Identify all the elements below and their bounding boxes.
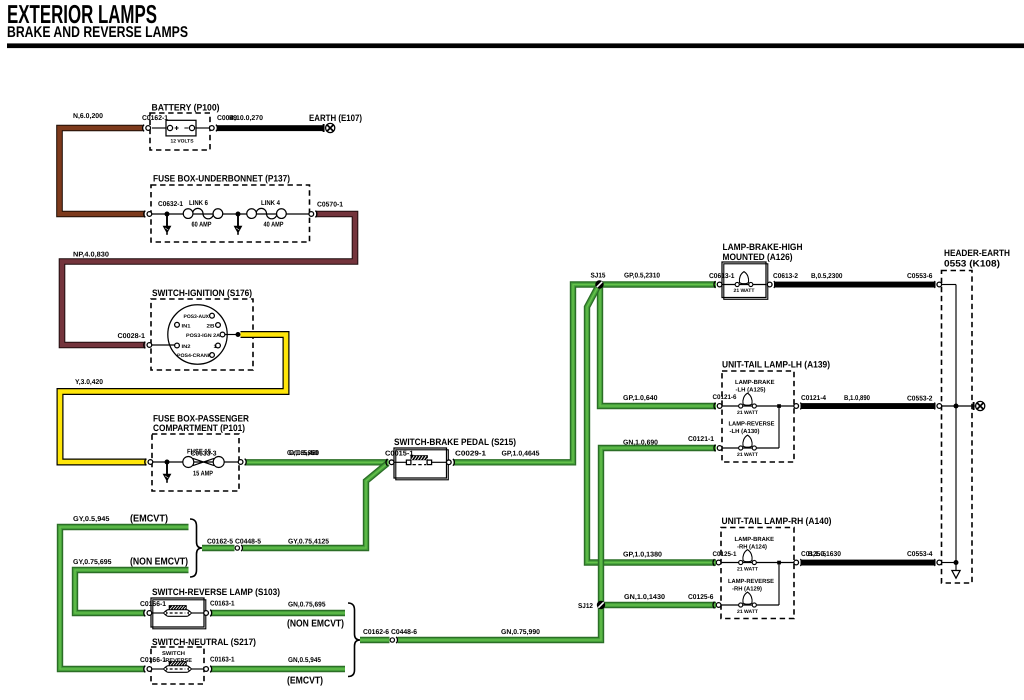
fusible link LINK 6 xyxy=(183,200,223,229)
connector C0049 battery xyxy=(209,125,217,132)
svg-text:SWITCH: SWITCH xyxy=(162,651,185,657)
label GN,0.75,990 xyxy=(501,629,540,636)
earth stud symbol right of K108 xyxy=(974,401,985,410)
connector C0121-1 A139 xyxy=(714,445,722,452)
label C0162-5 C0448-5 xyxy=(207,539,261,546)
label N,6.0,200 xyxy=(73,113,103,120)
svg-text:60 AMP: 60 AMP xyxy=(192,222,212,229)
svg-text:C0163-1: C0163-1 xyxy=(210,657,235,664)
switch-neutral S217 xyxy=(140,637,256,684)
svg-text:N,6.0,200: N,6.0,200 xyxy=(73,113,103,120)
svg-text:21 WATT: 21 WATT xyxy=(737,567,758,573)
wire GY,0.75,4125 branch to C0448-5 xyxy=(202,463,388,548)
svg-text:C0633-3: C0633-3 xyxy=(191,451,217,458)
connector C0553-2 K108 xyxy=(934,403,942,410)
label SJ15 xyxy=(591,273,606,280)
connector C0632-1 P137 xyxy=(144,211,152,218)
connector label C0632-1 xyxy=(158,201,183,208)
label GP,0.5,2310 xyxy=(624,273,660,280)
svg-text:C0162-6 C0448-6: C0162-6 C0448-6 xyxy=(363,629,417,636)
connector C0121-4 A139 xyxy=(794,403,802,410)
svg-text:SJ15: SJ15 xyxy=(591,273,606,280)
svg-text:MOUNTED (A126): MOUNTED (A126) xyxy=(723,252,793,262)
label NON EMCVT top xyxy=(130,557,188,568)
label C0121-4 xyxy=(801,395,826,402)
wire GP,1.0,640 SJ15 to tail lamp LH brake xyxy=(600,287,716,406)
svg-text:B,1.0,890: B,1.0,890 xyxy=(844,395,870,402)
ground arrow K108 xyxy=(952,571,960,579)
svg-text:C0029-1: C0029-1 xyxy=(455,451,486,458)
svg-text:LAMP-BRAKE: LAMP-BRAKE xyxy=(735,379,775,386)
wire GY,0.5,945 EMCVT to switch-neutral xyxy=(60,527,189,669)
label C0553-4 xyxy=(907,551,933,558)
label C0125-6 xyxy=(688,594,714,601)
svg-text:C0121-1: C0121-1 xyxy=(688,436,714,443)
connector C0029-1 S215 xyxy=(446,459,454,466)
svg-text:(NON EMCVT): (NON EMCVT) xyxy=(287,619,344,630)
lamp-brake-high mounted A126 xyxy=(709,242,803,299)
svg-text:15 AMP: 15 AMP xyxy=(193,471,213,478)
svg-text:GY,0.75,4125: GY,0.75,4125 xyxy=(288,539,329,546)
pin POS3-AUX xyxy=(184,313,215,320)
label GP,1.0,1380 xyxy=(623,552,662,559)
label C0049 and B,10.0,270 xyxy=(217,115,263,122)
label GN,1.0,1430 xyxy=(624,594,665,601)
label EMCVT top xyxy=(130,514,168,525)
svg-text:C0162-5 C0448-5: C0162-5 C0448-5 xyxy=(207,539,261,546)
subtitle BRAKE AND REVERSE LAMPS xyxy=(7,24,188,41)
fusible link LINK 4 xyxy=(247,200,287,229)
svg-text:21 WATT: 21 WATT xyxy=(737,410,758,416)
unit-tail lamp-LH A139 xyxy=(713,360,831,463)
connector C0125-6 A140 xyxy=(713,602,721,609)
inline connector C0162-6 C0448-6 xyxy=(390,635,398,645)
connector C0570-1 P137 xyxy=(309,211,317,218)
junction node ignition yellow tap xyxy=(236,332,241,337)
connector C0553-6 K108 xyxy=(934,281,942,288)
svg-text:SWITCH-BRAKE PEDAL (S215): SWITCH-BRAKE PEDAL (S215) xyxy=(394,437,516,447)
junction node K108 low xyxy=(954,560,959,565)
battery P100 xyxy=(142,103,220,151)
label EARTH E107 xyxy=(309,113,362,123)
label GY,0.75,695 xyxy=(73,559,112,566)
svg-text:C0125-6: C0125-6 xyxy=(688,594,714,601)
connector C0613-2 A126 xyxy=(767,281,775,288)
label GP,1.0,640 xyxy=(623,395,658,402)
svg-text:HEADER-EARTH: HEADER-EARTH xyxy=(944,248,1010,258)
svg-text:-LH (A125): -LH (A125) xyxy=(736,387,766,394)
svg-text:-RH (A129): -RH (A129) xyxy=(732,586,762,593)
node ignition IGN output xyxy=(225,334,236,336)
svg-text:COMPARTMENT (P101): COMPARTMENT (P101) xyxy=(153,423,245,433)
label C0029-1 xyxy=(455,451,486,458)
fuse box passenger compartment P101 xyxy=(152,414,249,492)
lamp-reverse-LH A130 xyxy=(729,421,775,459)
svg-text:NP,4.0,830: NP,4.0,830 xyxy=(73,252,109,259)
label C0028-1 xyxy=(118,333,146,340)
wire GP,1.0,4645 and GP,0.5,2310 brake pedal to SJ15 to lamp A126 xyxy=(454,285,717,463)
svg-text:40 AMP: 40 AMP xyxy=(264,222,284,229)
connector C0553-4 K108 xyxy=(934,559,942,566)
svg-text:B,10.0,270: B,10.0,270 xyxy=(229,115,263,122)
wire GN vertical GN,1.0,690 and GN,0.75,990 xyxy=(360,448,716,640)
svg-text:BRAKE AND REVERSE LAMPS: BRAKE AND REVERSE LAMPS xyxy=(7,24,188,41)
label C0163-1 S217 xyxy=(210,657,235,664)
wire Y,3.0,420 ignition to P101 xyxy=(60,335,286,463)
junction node P137 feed 1 xyxy=(163,212,172,235)
svg-text:POS4-CRANK: POS4-CRANK xyxy=(177,353,212,359)
label GY,0.75,4125 xyxy=(288,539,329,546)
connector C0163-1 S217 xyxy=(204,666,212,673)
svg-text:IN2: IN2 xyxy=(182,344,191,350)
label C0121-1 xyxy=(688,436,714,443)
label NP,4.0,830 xyxy=(73,252,109,259)
label GN,0.75,695 xyxy=(288,602,326,609)
label B,1.0,890 xyxy=(844,395,870,402)
svg-text:IN1: IN1 xyxy=(182,323,191,329)
wire GY,0.75,695 NON EMCVT to switch-reverse lamp xyxy=(75,570,189,613)
wire GN,1.0,1430 SJ12 to tail lamp RH reverse xyxy=(601,602,716,608)
svg-text:C0166-1: C0166-1 xyxy=(140,657,166,664)
svg-text:21 WATT: 21 WATT xyxy=(737,452,758,458)
svg-text:GN,1.0,690: GN,1.0,690 xyxy=(623,440,658,447)
pin 1 xyxy=(214,343,221,350)
svg-text:GN,1.0,1430: GN,1.0,1430 xyxy=(624,594,665,601)
label C0553-6 xyxy=(907,273,933,280)
connector C0125-5 A140 xyxy=(794,559,802,566)
inline connector C0162-5 C0448-5 xyxy=(235,543,243,553)
svg-text:SWITCH-REVERSE LAMP (S103): SWITCH-REVERSE LAMP (S103) xyxy=(152,587,280,597)
lamp-brake-LH A125 xyxy=(735,379,775,416)
brace merging EMCVT and NON EMCVT feeds xyxy=(190,519,202,577)
connector P101 left xyxy=(145,459,153,466)
header-earth 0553 K108 xyxy=(942,248,1011,583)
svg-text:C0553-6: C0553-6 xyxy=(907,273,933,280)
svg-text:LAMP-BRAKE-HIGH: LAMP-BRAKE-HIGH xyxy=(723,242,803,252)
svg-text:GY,0.5,945: GY,0.5,945 xyxy=(73,516,110,523)
connector label C0570-1 xyxy=(317,202,343,209)
pin IN2 xyxy=(175,343,191,350)
svg-text:(NON EMCVT): (NON EMCVT) xyxy=(130,557,188,568)
svg-text:LAMP-REVERSE: LAMP-REVERSE xyxy=(728,578,774,585)
connector S103 left xyxy=(144,610,152,617)
label SJ12 xyxy=(578,603,593,610)
svg-text:-RH (A124): -RH (A124) xyxy=(737,544,767,551)
fuse FUSE 15 xyxy=(183,449,224,478)
switch-brake pedal S215 xyxy=(385,437,516,480)
svg-text:C0015-1: C0015-1 xyxy=(385,451,414,458)
svg-text:BATTERY (P100): BATTERY (P100) xyxy=(152,103,220,113)
svg-text:GP,1.0,4645: GP,1.0,4645 xyxy=(502,451,540,458)
lamp-reverse-RH A129 xyxy=(728,578,774,615)
svg-text:LAMP-REVERSE: LAMP-REVERSE xyxy=(729,421,775,428)
wire N,6.0,200 battery to P137 xyxy=(60,128,145,214)
label NON EMCVT bottom xyxy=(287,619,344,630)
svg-text:C0121-4: C0121-4 xyxy=(801,395,826,402)
label C0162-6 C0448-6 xyxy=(363,629,417,636)
svg-text:C0028-1: C0028-1 xyxy=(118,333,146,340)
connector S217 left xyxy=(144,666,152,673)
svg-text:21 WATT: 21 WATT xyxy=(737,609,758,615)
label GY,0.5,650 overlap xyxy=(287,450,319,457)
svg-text:C0632-1: C0632-1 xyxy=(158,201,183,208)
svg-text:C0121-6: C0121-6 xyxy=(713,394,737,401)
unit-tail lamp-RH A140 xyxy=(713,516,832,619)
svg-text:FUSE BOX-UNDERBONNET (P137): FUSE BOX-UNDERBONNET (P137) xyxy=(153,174,290,184)
label Y,3.0,420 xyxy=(75,379,103,386)
splice SJ15 xyxy=(595,280,603,288)
junction node P101 feed xyxy=(163,460,172,483)
connector C0125-1 A140 xyxy=(713,559,721,566)
label C0613-2 xyxy=(773,273,798,280)
label C0125-5 and B,1.0,1630 overlap xyxy=(801,551,841,558)
svg-text:GN,0.5,945: GN,0.5,945 xyxy=(288,657,321,664)
svg-text:POS3-AUX: POS3-AUX xyxy=(184,314,210,320)
label GN,0.5,945 xyxy=(288,657,321,664)
svg-text:SJ12: SJ12 xyxy=(578,603,593,610)
pin POS4-CRANK xyxy=(177,353,214,359)
label C0163-1 S103 xyxy=(210,601,235,608)
wire GY P101 to brake pedal switch xyxy=(246,459,389,465)
pin POS3-IGN 2A xyxy=(186,332,225,339)
svg-text:GN,0.75,990: GN,0.75,990 xyxy=(501,629,540,636)
connector C0015-1 S215 xyxy=(386,459,394,466)
switch-ignition S176 xyxy=(151,288,253,370)
wire GP,1.0,1380 SJ15 to tail lamp RH brake xyxy=(587,286,716,563)
label EMCVT bottom xyxy=(287,676,323,687)
label C0553-2 xyxy=(907,396,933,403)
wire B,10.0,270 battery to earth xyxy=(217,125,323,131)
junction node K108 mid xyxy=(954,404,959,409)
svg-text:POS3-IGN 2A: POS3-IGN 2A xyxy=(186,333,220,339)
wire B,1.0,890 tail lamp LH to K108 xyxy=(801,403,936,409)
svg-text:C0163-1: C0163-1 xyxy=(210,601,235,608)
svg-text:UNIT-TAIL LAMP-LH (A139): UNIT-TAIL LAMP-LH (A139) xyxy=(722,360,830,370)
label GY,0.5,945 xyxy=(73,516,110,523)
title rule bar xyxy=(7,43,1024,48)
svg-text:UNIT-TAIL LAMP-RH (A140): UNIT-TAIL LAMP-RH (A140) xyxy=(722,516,832,526)
fuse box underbonnet P137 xyxy=(151,174,310,243)
svg-text:GP,1.0,640: GP,1.0,640 xyxy=(623,395,658,402)
svg-text:LINK 4: LINK 4 xyxy=(261,200,280,207)
brace merging switch outputs xyxy=(348,603,360,677)
svg-text:GY,0.75,695: GY,0.75,695 xyxy=(73,559,112,566)
svg-text:C0162-1: C0162-1 xyxy=(142,115,168,122)
svg-text:B,1.0,1630: B,1.0,1630 xyxy=(808,551,841,558)
svg-text:GP,0.5,2310: GP,0.5,2310 xyxy=(624,273,660,280)
svg-text:LAMP-BRAKE: LAMP-BRAKE xyxy=(735,536,775,543)
svg-text:Y,3.0,420: Y,3.0,420 xyxy=(75,379,103,386)
pin 2B xyxy=(207,323,221,330)
svg-text:-LH (A130): -LH (A130) xyxy=(730,428,760,435)
label GN,1.0,690 xyxy=(623,440,658,447)
svg-text:B,0.5,2300: B,0.5,2300 xyxy=(811,273,843,280)
connector C0633-3 P101 right xyxy=(238,459,246,466)
earth symbol E107 xyxy=(324,123,335,132)
svg-text:21 WATT: 21 WATT xyxy=(734,288,755,294)
svg-text:12 VOLTS: 12 VOLTS xyxy=(171,139,195,145)
junction node P137 feed 2 xyxy=(234,212,243,235)
pin IN1 xyxy=(175,322,191,329)
connector C0162-1 battery xyxy=(143,125,151,132)
svg-text:0553 (K108): 0553 (K108) xyxy=(944,259,1000,269)
lamp-brake-RH A124 xyxy=(735,536,775,573)
svg-text:EARTH (E107): EARTH (E107) xyxy=(309,113,362,123)
switch-reverse lamp S103 xyxy=(140,587,280,629)
connector C0028-1 S176 xyxy=(144,342,152,349)
svg-text:(EMCVT): (EMCVT) xyxy=(130,514,168,525)
svg-text:G,0.85,480: G,0.85,480 xyxy=(289,450,319,457)
svg-text:C0570-1: C0570-1 xyxy=(317,202,343,209)
label B,0.5,2300 xyxy=(811,273,843,280)
svg-text:SWITCH-NEUTRAL (S217): SWITCH-NEUTRAL (S217) xyxy=(152,637,256,647)
svg-text:LINK 6: LINK 6 xyxy=(189,200,208,207)
svg-text:GN,0.75,695: GN,0.75,695 xyxy=(288,602,326,609)
svg-text:C0553-4: C0553-4 xyxy=(907,551,933,558)
svg-text:GP,1.0,1380: GP,1.0,1380 xyxy=(623,552,662,559)
wire NP,4.0,830 P137 to ignition xyxy=(62,214,355,345)
svg-text:(EMCVT): (EMCVT) xyxy=(287,676,323,687)
svg-text:C0125-1: C0125-1 xyxy=(713,551,737,558)
connector C0121-6 A139 xyxy=(714,403,722,410)
wire B,1.0,1630 tail lamp RH to K108 xyxy=(801,560,936,566)
wire B,0.5,2300 lamp A126 to K108 xyxy=(774,282,936,288)
title EXTERIOR LAMPS xyxy=(7,0,157,29)
wire GN,0.75,695 switch-reverse lamp output xyxy=(211,610,345,616)
svg-text:SWITCH-IGNITION (S176): SWITCH-IGNITION (S176) xyxy=(152,288,252,298)
wire GN,0.5,945 switch-neutral output xyxy=(211,666,345,672)
splice SJ12 xyxy=(597,601,605,609)
connector C0163-1 S103 xyxy=(204,610,212,617)
connector C0613-1 A126 xyxy=(714,281,722,288)
svg-text:C0613-2: C0613-2 xyxy=(773,273,798,280)
label GP,1.0,4645 xyxy=(502,451,540,458)
svg-text:C0553-2: C0553-2 xyxy=(907,396,933,403)
svg-text:2B: 2B xyxy=(207,323,215,329)
